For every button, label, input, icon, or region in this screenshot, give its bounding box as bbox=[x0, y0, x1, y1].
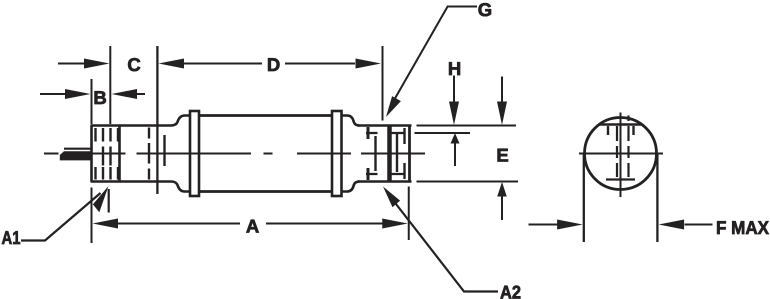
E lower arrowhead bbox=[497, 182, 507, 197]
right neck crimp stubs bbox=[367, 127, 370, 180]
right shoulder curves bbox=[342, 116, 360, 126]
slot wall dashed left bbox=[616, 126, 618, 177]
B right arrowhead bbox=[112, 89, 138, 99]
right cap crimp stubs bbox=[403, 128, 405, 179]
screwdriver slot bbox=[387, 126, 392, 182]
E upper arrowhead bbox=[497, 102, 507, 126]
svg-text:C: C bbox=[127, 54, 140, 75]
body left raised ring bbox=[190, 111, 199, 196]
A right arrowhead bbox=[382, 219, 408, 229]
slot end-view stub right bbox=[632, 126, 634, 135]
svg-text:A: A bbox=[246, 216, 259, 237]
G leader line bbox=[390, 7, 478, 109]
C arrowhead bbox=[84, 59, 110, 69]
D right extension line bbox=[382, 46, 384, 121]
svg-text:D: D bbox=[267, 54, 280, 75]
svg-text:B: B bbox=[93, 87, 106, 108]
F MAX left arrowhead bbox=[557, 220, 583, 230]
C dimension stem bbox=[58, 63, 85, 65]
H lower arrowhead bbox=[451, 133, 460, 144]
lead wire stub bbox=[64, 148, 92, 150]
left cap bottom edge bbox=[91, 180, 172, 183]
left shoulder curves bbox=[171, 116, 190, 192]
section line x157 bbox=[156, 46, 158, 194]
left cap top edge bbox=[91, 124, 172, 127]
left cap center ticks bbox=[103, 147, 111, 166]
slot depth hidden line top bbox=[366, 132, 405, 134]
circle horizontal centerline bbox=[579, 153, 663, 155]
svg-text:G: G bbox=[478, 0, 492, 20]
H lower extension line bbox=[415, 132, 471, 134]
F MAX right arrowhead bbox=[659, 220, 685, 230]
svg-text:F MAX: F MAX bbox=[716, 217, 770, 238]
svg-text:H: H bbox=[448, 58, 461, 79]
main body bottom edge bbox=[199, 190, 332, 193]
left cap crimp stubs bbox=[96, 128, 119, 180]
A2 leader line bbox=[389, 195, 498, 292]
A left arrowhead bbox=[93, 219, 119, 229]
body right raised ring bbox=[332, 111, 342, 196]
circle vertical centerline bbox=[620, 113, 622, 198]
svg-text:E: E bbox=[496, 145, 508, 166]
right cap center tick bbox=[396, 134, 398, 173]
D dimension stems bbox=[183, 63, 355, 65]
main body top edge bbox=[199, 114, 332, 117]
A left extension line bbox=[91, 188, 93, 244]
svg-text:A2: A2 bbox=[500, 282, 521, 299]
H upper arrowhead bbox=[449, 102, 459, 126]
A1 leader arrowhead bbox=[93, 186, 109, 212]
E upper extension line bbox=[417, 125, 517, 127]
left cap left face bbox=[90, 126, 93, 182]
D right arrowhead bbox=[356, 59, 382, 69]
F right tangent line bbox=[656, 154, 658, 242]
B dimension stems bbox=[40, 93, 145, 95]
slot bottom chord bbox=[606, 178, 635, 180]
E dimension arrow stems bbox=[501, 77, 503, 221]
left cap right face bbox=[118, 126, 121, 182]
E lower extension line bbox=[417, 181, 519, 183]
F left tangent line bbox=[583, 154, 585, 242]
left neck crimp stubs bbox=[148, 128, 150, 180]
right neck bottom edge bbox=[358, 180, 412, 183]
slot end-view stub left bbox=[607, 126, 609, 135]
component centerline bbox=[90, 153, 425, 155]
svg-text:A1: A1 bbox=[2, 227, 21, 248]
left neck center tick bbox=[148, 143, 150, 164]
A dimension stems bbox=[118, 223, 383, 225]
right neck top edge bbox=[358, 124, 412, 127]
B left arrowhead bbox=[65, 89, 91, 99]
slot wall dashed right bbox=[627, 116, 629, 178]
center tick x164.5 bbox=[163, 135, 165, 166]
A2 leader arrowhead bbox=[383, 187, 400, 208]
end view circle bbox=[585, 118, 657, 190]
H dimension arrow stems bbox=[454, 76, 455, 167]
right neck center tick bbox=[374, 136, 376, 171]
C left extension line bbox=[109, 46, 111, 124]
F MAX dimension stems bbox=[529, 224, 713, 226]
wire centerline left bbox=[44, 153, 59, 155]
A1 leader line bbox=[21, 189, 109, 241]
D left arrowhead bbox=[159, 59, 185, 69]
B left extension line bbox=[91, 79, 93, 124]
slot depth hidden line bottom bbox=[366, 173, 405, 175]
G leader arrowhead bbox=[386, 96, 401, 117]
slot chord bar bbox=[599, 123, 642, 126]
A right extension line bbox=[408, 187, 410, 241]
right cap face bbox=[408, 126, 411, 182]
